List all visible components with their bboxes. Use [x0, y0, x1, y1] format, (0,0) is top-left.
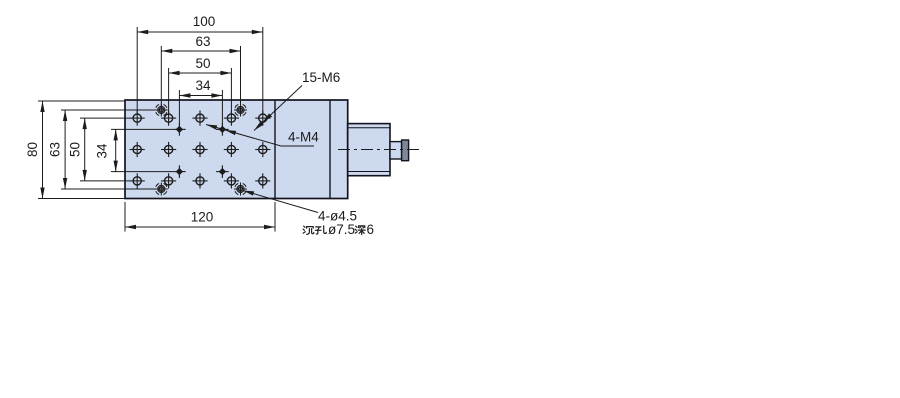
- motor block lip lines: [348, 127, 390, 129]
- svg-text:34: 34: [195, 78, 211, 93]
- svg-text:120: 120: [191, 210, 214, 225]
- svg-text:50: 50: [195, 56, 210, 71]
- plate right edge line: [274, 100, 276, 199]
- motor block: [348, 124, 390, 176]
- connector cap: [402, 140, 409, 161]
- dimension 50 (top): [169, 68, 232, 114]
- svg-text:100: 100: [193, 14, 216, 29]
- svg-text:34: 34: [95, 143, 110, 159]
- dimension 80 (left): [38, 101, 125, 199]
- dimension 100 (top): [137, 27, 263, 114]
- center line (dash-dot): [338, 149, 420, 151]
- dimension 63 (top): [161, 46, 240, 106]
- dimension 34 (top): [179, 90, 222, 125]
- M4 holes 4-M4: [173, 123, 229, 178]
- dimension 50 (left): [80, 118, 130, 181]
- svg-text:63: 63: [195, 34, 210, 49]
- dimension 63 (left): [61, 110, 155, 189]
- M6 hole grid (15-M6): [130, 111, 271, 189]
- svg-text:15-M6: 15-M6: [302, 70, 340, 85]
- svg-text:50: 50: [68, 142, 83, 157]
- connector shaft: [390, 142, 402, 159]
- dimension 120 (bottom): [125, 202, 275, 232]
- dimension 34 (left): [111, 129, 173, 171]
- body internal edge line: [329, 100, 331, 199]
- svg-text:63: 63: [48, 142, 63, 157]
- stage base plate (top view): [125, 100, 348, 199]
- svg-text:ø7.5: ø7.5: [328, 222, 355, 237]
- note text 沉孔ø7.5深6 (drawn glyphs): [303, 222, 374, 237]
- svg-text:6: 6: [367, 222, 375, 237]
- svg-text:4-M4: 4-M4: [288, 130, 319, 145]
- svg-text:80: 80: [25, 142, 40, 157]
- counterbore holes 4-ø4.5: [155, 104, 247, 196]
